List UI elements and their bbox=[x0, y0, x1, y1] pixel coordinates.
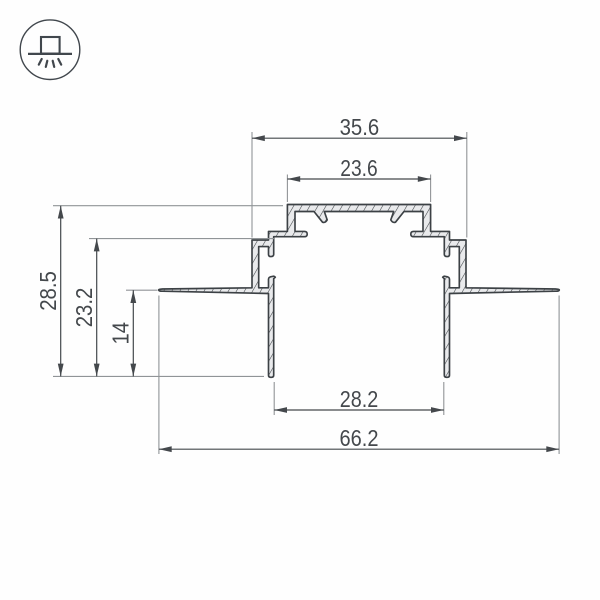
extension line bottom reference bbox=[53, 375, 264, 377]
svg-text:66.2: 66.2 bbox=[340, 425, 379, 451]
dimension 14 bbox=[132, 290, 134, 376]
extension line 66.2 left bbox=[158, 296, 160, 455]
extension line 35.6 left bbox=[251, 132, 253, 238]
extension line 23.2 top bbox=[89, 238, 274, 240]
dimension 28.5 bbox=[60, 206, 62, 377]
svg-text:23.2: 23.2 bbox=[71, 288, 97, 328]
dimension 66.2 bbox=[159, 448, 559, 450]
svg-text:28.2: 28.2 bbox=[340, 386, 379, 412]
svg-text:35.6: 35.6 bbox=[340, 114, 380, 140]
extension line 28.2 right bbox=[443, 382, 445, 415]
dimension 23.6 bbox=[287, 178, 430, 180]
svg-text:28.5: 28.5 bbox=[35, 271, 61, 311]
extension line 28.2 left bbox=[273, 382, 275, 415]
aluminium profile cross-section bbox=[159, 205, 560, 378]
dimension 35.6 bbox=[252, 137, 467, 139]
extension line 66.2 right bbox=[558, 296, 560, 455]
dimension 23.2 bbox=[96, 239, 98, 377]
dimension 28.2 bbox=[274, 409, 444, 411]
svg-text:14: 14 bbox=[108, 322, 134, 345]
svg-text:23.6: 23.6 bbox=[340, 155, 377, 181]
extension line 23.6 right bbox=[430, 175, 432, 203]
extension line 23.6 left bbox=[286, 175, 288, 203]
recessed-luminaire icon bbox=[20, 20, 80, 80]
extension line 28.5 top bbox=[53, 205, 283, 207]
extension line 14 top bbox=[126, 289, 158, 291]
extension line 35.6 right bbox=[466, 132, 468, 238]
